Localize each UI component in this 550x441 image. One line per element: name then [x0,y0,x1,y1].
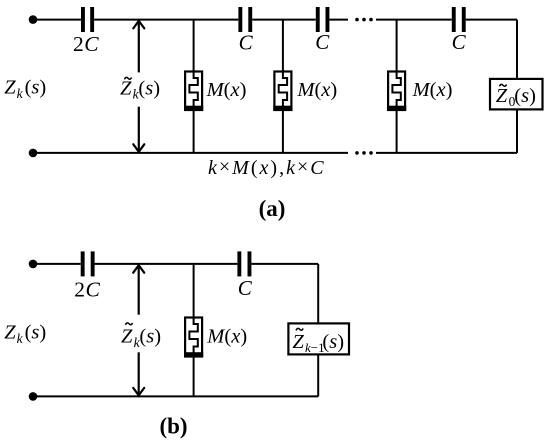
svg-text:k: k [17,86,24,101]
svg-text:k: k [17,331,24,346]
svg-text:Z: Z [496,85,508,107]
svg-text:M(x): M(x) [412,79,453,101]
svg-text:Z: Z [4,77,16,99]
svg-text:(s): (s) [25,77,47,99]
svg-text:Z: Z [4,322,16,344]
svg-text:2C: 2C [74,278,100,302]
svg-text:Z: Z [292,331,304,353]
svg-text:M(x): M(x) [206,79,247,101]
svg-text:C: C [452,30,467,54]
svg-text:(s): (s) [25,322,47,344]
svg-text:Z: Z [120,77,132,99]
svg-text:k×M(x),k×C: k×M(x),k×C [208,156,326,179]
svg-text:(s): (s) [514,85,536,107]
svg-text:C: C [315,30,330,54]
svg-text:C: C [238,276,253,300]
svg-text:(s): (s) [322,331,344,353]
svg-text:(s): (s) [139,326,161,348]
svg-text:Z: Z [121,326,133,348]
svg-text:(a): (a) [259,196,286,221]
svg-text:M(x): M(x) [206,326,247,348]
svg-text:C: C [239,30,254,54]
svg-text:(b): (b) [159,414,187,439]
svg-text:2C: 2C [73,32,99,56]
svg-text:M(x): M(x) [296,79,337,101]
svg-text:(s): (s) [138,77,160,99]
